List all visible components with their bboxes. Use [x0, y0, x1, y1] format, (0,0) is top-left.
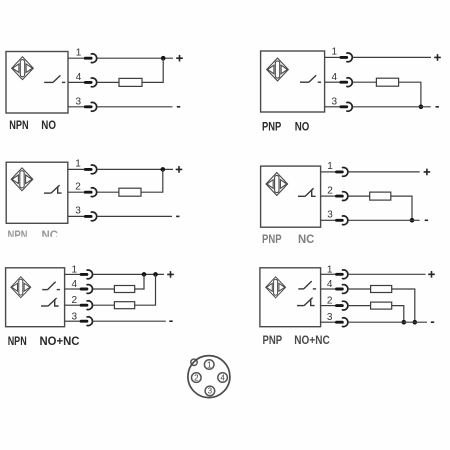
load resistor	[370, 192, 391, 200]
svg-text:PNP: PNP	[263, 333, 283, 347]
connector contact pin1	[341, 53, 352, 62]
load resistor NO	[371, 286, 392, 293]
svg-text:NPN: NPN	[9, 118, 28, 132]
load resistor	[119, 188, 141, 196]
connector contact pin4	[85, 78, 96, 87]
NC switch contact	[41, 298, 59, 306]
svg-text:4: 4	[332, 72, 338, 83]
wire pin2 to plug	[321, 195, 336, 197]
NC switch contact	[298, 188, 316, 196]
wire load down to - rail far junction	[392, 289, 415, 322]
minus terminal	[177, 106, 180, 108]
wire plug to load	[97, 81, 119, 83]
wire pin3 to plug	[325, 106, 341, 108]
svg-text:NC: NC	[298, 232, 315, 246]
svg-text:1: 1	[332, 47, 338, 58]
svg-text:NO: NO	[41, 118, 56, 132]
svg-text:2: 2	[194, 373, 199, 382]
svg-text:3: 3	[327, 312, 333, 323]
connector contact pin4	[337, 285, 348, 294]
wire pin1 to + rail	[353, 56, 432, 58]
svg-text:NPN: NPN	[8, 334, 27, 348]
junction dot near	[402, 320, 407, 325]
svg-text:2: 2	[75, 181, 81, 192]
svg-text:3: 3	[76, 97, 82, 108]
junction dot	[410, 218, 415, 223]
junction dot	[161, 56, 166, 61]
connector body circle	[188, 356, 230, 398]
minus terminal	[176, 215, 179, 217]
NO switch contact	[300, 75, 321, 82]
wire pin1 to plug	[321, 171, 336, 173]
NO switch contact	[44, 75, 65, 82]
wire load to junction	[142, 58, 163, 82]
svg-text:NO+NC: NO+NC	[294, 333, 330, 347]
sensor box PNP NC	[261, 166, 321, 227]
sensor box NPN NC	[6, 162, 68, 223]
wire plug to load	[348, 305, 371, 307]
connector contact pin1	[81, 270, 92, 279]
svg-text:3: 3	[72, 311, 78, 322]
svg-text:PNP: PNP	[262, 232, 282, 246]
wire pin3 to - rail	[353, 106, 431, 108]
svg-text:2: 2	[327, 296, 333, 307]
connector contact pin2	[81, 301, 92, 310]
wire pin4 to plug	[68, 81, 85, 83]
wire plug to load	[348, 288, 371, 290]
junction dot	[161, 167, 166, 172]
wire load down to - rail near junction	[392, 306, 404, 323]
wire load down to - rail	[391, 196, 412, 220]
connector contact pin3	[341, 102, 352, 111]
keying notch	[191, 359, 197, 365]
wire pin2 to plug	[68, 191, 85, 193]
svg-text:1: 1	[327, 264, 333, 275]
svg-text:NC: NC	[42, 228, 59, 242]
proximity sensor symbol	[12, 57, 34, 80]
NO switch contact	[42, 282, 60, 290]
svg-text:1: 1	[76, 47, 82, 58]
svg-text:3: 3	[208, 387, 213, 396]
wire plug to load	[348, 195, 370, 197]
svg-text:4: 4	[76, 72, 82, 83]
wire pin3 to plug	[68, 215, 85, 217]
minus terminal	[431, 321, 434, 323]
connector contact pin2	[85, 188, 96, 197]
svg-text:NPN: NPN	[8, 228, 28, 242]
svg-text:3: 3	[75, 206, 81, 217]
wire pin1 to plug	[68, 168, 85, 170]
wire pin2 to plug	[65, 304, 81, 306]
wire pin1 to + rail	[348, 171, 420, 173]
pin 2 circle	[192, 373, 202, 383]
wire plug to load	[93, 304, 115, 306]
svg-text:NO: NO	[295, 120, 310, 134]
connector contact pin1	[85, 165, 96, 174]
minus terminal	[425, 219, 428, 221]
junction dot far	[413, 320, 418, 325]
svg-text:1: 1	[75, 159, 81, 170]
svg-text:1: 1	[72, 264, 78, 275]
caption PNP NO+NC	[263, 333, 330, 347]
wire pin3 to plug	[321, 219, 336, 221]
connector contact pin2	[337, 192, 348, 201]
load resistor NC	[114, 302, 134, 309]
wire pin4 to plug	[321, 288, 336, 290]
connector contact pin3	[85, 102, 96, 111]
wire plug to load	[93, 288, 115, 290]
wire pin3 to plug	[68, 106, 85, 108]
wire plug to load	[353, 81, 377, 83]
wire load to junction	[141, 169, 163, 192]
minus terminal	[169, 320, 172, 322]
svg-text:2: 2	[327, 185, 333, 196]
wire pin1 to + rail	[93, 273, 164, 275]
caption NPN NC (clipped by splice)	[8, 228, 59, 242]
svg-text:4: 4	[327, 279, 333, 290]
connector contact pin3	[85, 212, 96, 221]
sensor box PNP NO+NC	[260, 268, 321, 327]
wire pin1 to + rail	[97, 57, 173, 59]
pin 4 circle	[218, 373, 228, 383]
plus terminal	[434, 54, 441, 61]
svg-text:PNP: PNP	[262, 120, 281, 134]
wire load to junction B	[135, 274, 156, 305]
svg-text:1: 1	[207, 360, 212, 369]
wire pin1 to plug	[65, 273, 81, 275]
connector contact pin4	[341, 78, 352, 87]
wire plug to load	[97, 191, 119, 193]
wire pin1 to plug	[325, 56, 341, 58]
wire pin3 to - rail	[97, 215, 172, 217]
load resistor	[119, 78, 142, 86]
load resistor NO	[114, 286, 134, 293]
proximity sensor symbol	[11, 168, 33, 191]
connector contact pin4	[81, 285, 92, 294]
wire pin1 to + rail	[348, 273, 425, 275]
wire pin3 to - rail	[348, 321, 427, 323]
svg-text:3: 3	[332, 96, 338, 107]
svg-text:3: 3	[327, 210, 333, 221]
wire pin4 to plug	[65, 288, 81, 290]
wire pin1 to plug	[321, 273, 336, 275]
caption PNP NC (faded splice)	[262, 232, 315, 246]
NO switch contact	[298, 281, 316, 289]
wire pin4 to plug	[325, 81, 341, 83]
wire pin1 to + rail	[97, 168, 173, 170]
plus terminal	[176, 55, 183, 62]
junction dot	[419, 105, 424, 110]
connector contact pin3	[337, 216, 348, 225]
svg-text:NO+NC: NO+NC	[40, 334, 80, 348]
connector contact pin3	[337, 318, 348, 327]
wire pin3 to - rail	[93, 320, 166, 322]
sensor box PNP NO	[261, 51, 325, 112]
plus terminal	[424, 169, 431, 176]
wire pin3 to plug	[65, 320, 81, 322]
wire pin1 to plug	[68, 57, 85, 59]
connector contact pin1	[337, 167, 348, 176]
plus terminal	[167, 271, 174, 278]
wire pin3 to - rail	[97, 106, 173, 108]
wire load to junction A	[135, 274, 144, 289]
proximity sensor symbol	[266, 277, 286, 298]
connector contact pin2	[337, 301, 348, 310]
NC switch contact	[297, 298, 315, 306]
minus terminal	[436, 106, 439, 108]
pin 1 circle	[204, 360, 214, 370]
NC switch contact	[44, 185, 62, 193]
load resistor	[376, 78, 398, 86]
plus terminal	[176, 166, 183, 173]
pin 3 circle	[205, 386, 215, 396]
connector contact pin1	[85, 54, 96, 63]
sensor box NPN NO+NC	[6, 268, 65, 327]
wire pin3 to - rail	[348, 219, 420, 221]
proximity sensor symbol	[11, 277, 31, 298]
svg-text:4: 4	[220, 373, 225, 382]
load resistor NC	[371, 302, 392, 309]
sensor box NPN NO	[6, 52, 68, 114]
proximity sensor symbol	[266, 173, 288, 196]
junction dot A	[142, 272, 147, 277]
connector contact pin1	[337, 270, 348, 279]
wire pin2 to plug	[321, 305, 336, 307]
connector contact pin3	[81, 317, 92, 326]
svg-text:2: 2	[72, 295, 78, 306]
wire pin3 to plug	[321, 321, 336, 323]
proximity sensor symbol	[267, 58, 289, 81]
svg-text:4: 4	[72, 279, 78, 290]
svg-text:1: 1	[327, 161, 333, 172]
junction dot B	[153, 272, 158, 277]
plus terminal	[428, 271, 435, 278]
wire load down to - rail	[399, 82, 421, 107]
